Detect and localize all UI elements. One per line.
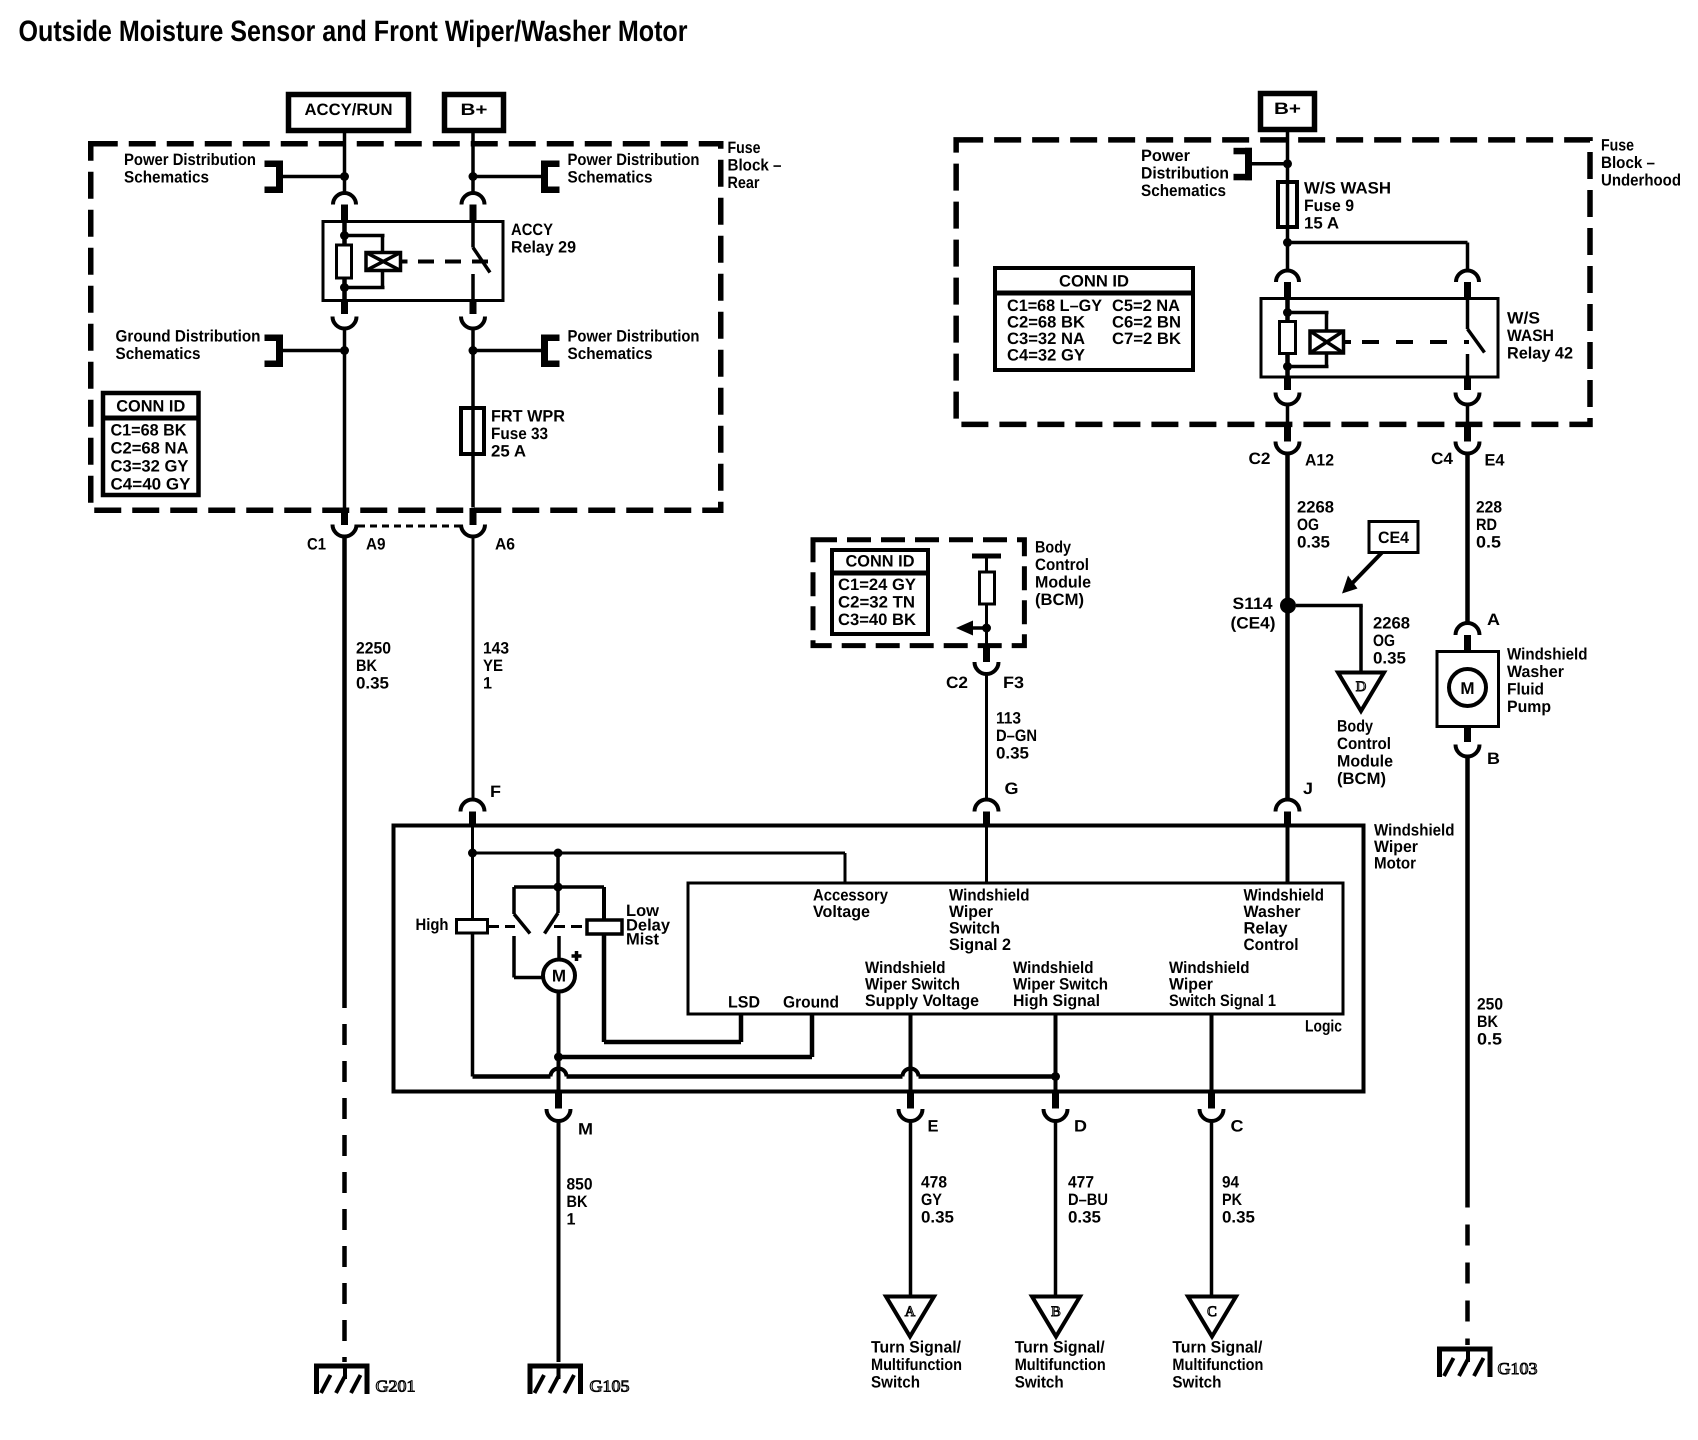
svg-text:Rear: Rear — [728, 174, 760, 192]
svg-text:(BCM): (BCM) — [1337, 770, 1386, 788]
wire: wiper switch signal 1 pin C — [1210, 1014, 1214, 1092]
ground G103 — [1437, 1347, 1538, 1378]
svg-text:250: 250 — [1477, 995, 1503, 1013]
wire branch S114 to BCM triangle — [1296, 606, 1363, 673]
svg-text:478: 478 — [921, 1173, 947, 1191]
wire: low winding to LSD — [604, 934, 741, 1042]
svg-text:Turn Signal/: Turn Signal/ — [1015, 1338, 1105, 1356]
logic pin labels bottom row — [728, 959, 1276, 1012]
svg-text:CE4: CE4 — [1378, 529, 1410, 547]
svg-text:Ground: Ground — [783, 993, 839, 1011]
wire: high speed bus to pin D — [473, 933, 1056, 1077]
svg-text:BK: BK — [356, 657, 377, 675]
wire 113 D-GN 0.35 — [985, 674, 988, 798]
relay ACCY Relay 29 body — [323, 221, 576, 301]
junction node switch feed — [554, 849, 563, 858]
svg-text:0.35: 0.35 — [921, 1208, 954, 1226]
svg-text:0.35: 0.35 — [1068, 1208, 1101, 1226]
svg-text:Wiper Switch: Wiper Switch — [1013, 975, 1108, 993]
svg-text:Schematics: Schematics — [568, 168, 653, 186]
wire 850 BK 1 to G105 — [557, 1122, 561, 1362]
svg-text:C: C — [1231, 1117, 1244, 1135]
connector C2 pin A12 (underhood exit) — [1276, 427, 1300, 454]
svg-text:C3=40 BK: C3=40 BK — [838, 611, 916, 629]
svg-text:Control: Control — [1244, 936, 1299, 954]
power feed box B+ (underhood) — [1261, 94, 1315, 130]
splice S114 (CE4) — [1280, 598, 1296, 614]
wire: J washer relay control into logic — [1286, 826, 1290, 885]
svg-text:C1=24 GY: C1=24 GY — [838, 576, 916, 594]
svg-text:Wiper Switch: Wiper Switch — [865, 975, 960, 993]
svg-text:C3=32 GY: C3=32 GY — [111, 457, 189, 475]
relay 42 coil-side internal wire — [1285, 299, 1290, 323]
label High — [416, 916, 449, 934]
wire 478 GY 0.35 — [909, 1122, 913, 1297]
junction node ground distribution tap — [340, 346, 349, 355]
svg-text:0.5: 0.5 — [1476, 533, 1501, 551]
svg-text:CONN ID: CONN ID — [846, 553, 915, 571]
svg-text:0.35: 0.35 — [1297, 533, 1330, 551]
fuse block - underhood dashed enclosure — [956, 140, 1590, 425]
label body control module (BCM) upper — [1035, 538, 1091, 609]
wire: relay 42 coil out to connector C2 — [1286, 405, 1290, 428]
relay 42 connector (coil pin) — [1276, 271, 1299, 300]
logic module label — [1305, 1017, 1342, 1035]
svg-text:Power Distribution: Power Distribution — [124, 151, 256, 169]
speed selector switch (High/Low) — [514, 887, 604, 934]
switch armature dashed link — [489, 925, 587, 928]
wire: relay 29 coil to ground distribution — [343, 329, 347, 508]
svg-text:C1=68 BK: C1=68 BK — [111, 421, 187, 439]
wire: wiper switch supply voltage pin E — [909, 1014, 913, 1092]
relay 42 armature dashed link — [1362, 340, 1469, 344]
junction node F line — [468, 849, 477, 858]
ground G201 — [314, 1364, 416, 1396]
svg-text:C4: C4 — [1431, 450, 1454, 468]
svg-text:C5=2 NA: C5=2 NA — [1112, 297, 1180, 315]
connector body dashed tie C1 — [358, 525, 460, 528]
label turn signal multifunction switch (A) — [871, 1338, 962, 1391]
svg-text:E: E — [928, 1117, 939, 1135]
connector below BCM (C2/F3) — [975, 648, 999, 674]
svg-text:Distribution: Distribution — [1141, 164, 1229, 182]
svg-text:Turn Signal/: Turn Signal/ — [1172, 1338, 1262, 1356]
wire: motor armature to connector M — [557, 992, 561, 1092]
junction node underhood B+ tap — [1283, 159, 1292, 168]
svg-text:Windshield: Windshield — [1013, 959, 1094, 977]
CONN ID table (BCM) — [832, 550, 928, 634]
svg-text:15 A: 15 A — [1304, 214, 1339, 232]
svg-text:C1=68 L–GY: C1=68 L–GY — [1007, 297, 1102, 315]
svg-text:2268: 2268 — [1373, 614, 1410, 632]
svg-text:F3: F3 — [1003, 674, 1024, 692]
svg-text:C2=68 BK: C2=68 BK — [1007, 313, 1085, 331]
logic module box — [688, 883, 1343, 1014]
connector C1 pin A6 (fuse block rear exit) — [461, 508, 485, 537]
BCM internal pull-up supply bar — [972, 554, 1001, 559]
wire: relay 42 output to connector C4 — [1466, 405, 1470, 428]
connector D below motor — [1044, 1092, 1068, 1122]
svg-text:B+: B+ — [1274, 100, 1301, 118]
svg-text:143: 143 — [483, 639, 509, 657]
wiper motor M — [543, 936, 582, 992]
svg-text:OG: OG — [1373, 632, 1395, 650]
crossover hop at motor line — [551, 1069, 567, 1077]
wire: B+ feed down to relay — [471, 132, 475, 193]
wire: G signal into logic (wiper switch signal 2) — [985, 826, 988, 885]
svg-text:C2=68 NA: C2=68 NA — [111, 439, 189, 457]
wire 250 BK 0.5 (solid run) — [1465, 757, 1470, 1187]
wire: S114 down to connector J — [1285, 606, 1290, 799]
pin label A — [1487, 611, 1500, 629]
connector C1 pin A9 (fuse block rear exit) — [333, 508, 357, 537]
svg-text:228: 228 — [1476, 498, 1502, 516]
wire: relay 29 output to fuse 33 — [471, 329, 475, 409]
svg-text:Block –: Block – — [728, 156, 782, 174]
junction node high bus to pin D — [1051, 1072, 1060, 1081]
svg-text:M: M — [578, 1120, 593, 1138]
junction node motor ground — [554, 1053, 563, 1062]
junction node switch bar — [554, 883, 563, 892]
svg-text:High: High — [416, 916, 449, 934]
svg-text:WASH: WASH — [1507, 327, 1554, 345]
svg-text:2268: 2268 — [1297, 498, 1334, 516]
BCM signal direction arrow — [956, 621, 987, 636]
power feed box ACCY/RUN — [289, 95, 409, 131]
wire: wiper switch high signal pin D — [1054, 1014, 1058, 1092]
arrow from CE4 to splice — [1342, 553, 1382, 594]
svg-text:Module: Module — [1035, 573, 1091, 591]
svg-text:Wiper: Wiper — [949, 903, 994, 921]
svg-text:Fuse 33: Fuse 33 — [491, 425, 548, 443]
fuse W/S WASH Fuse 9 15 A — [1278, 179, 1391, 232]
label turn signal multifunction switch (B) — [1015, 1338, 1106, 1391]
junction node on B+ line — [469, 172, 478, 181]
fuse FRT WPR Fuse 33 25 A — [461, 407, 565, 460]
CONN ID table (fuse block underhood) — [995, 268, 1193, 370]
connector B below pump — [1456, 726, 1480, 757]
junction node on ACCY/RUN line — [340, 172, 349, 181]
relay 42 lower connector (coil side) — [1276, 376, 1300, 405]
svg-text:Windshield: Windshield — [1244, 886, 1325, 904]
svg-text:2250: 2250 — [356, 639, 391, 657]
svg-text:A: A — [905, 1304, 916, 1320]
ground G105 — [528, 1364, 630, 1396]
label Low Delay Mist — [626, 902, 671, 948]
svg-text:0.5: 0.5 — [1477, 1030, 1502, 1048]
svg-text:C: C — [1207, 1304, 1217, 1320]
wire 94 PK 0.35 — [1210, 1122, 1214, 1297]
relay 42 internal node upper — [1283, 308, 1292, 317]
svg-text:Logic: Logic — [1305, 1017, 1342, 1035]
crossover hop at pin E line — [903, 1069, 919, 1077]
wire: switch common feed — [556, 853, 560, 887]
svg-text:A9: A9 — [366, 536, 386, 554]
svg-text:B: B — [1487, 750, 1500, 768]
svg-text:A12: A12 — [1305, 451, 1334, 469]
svg-text:477: 477 — [1068, 1173, 1094, 1191]
connector A into washer pump — [1456, 623, 1480, 653]
relay 42 internal node lower — [1283, 362, 1292, 371]
svg-text:Mist: Mist — [626, 931, 660, 949]
svg-text:Fuse 9: Fuse 9 — [1304, 197, 1354, 215]
svg-text:Power: Power — [1141, 147, 1191, 165]
svg-text:CONN ID: CONN ID — [1059, 272, 1129, 290]
svg-text:Turn Signal/: Turn Signal/ — [871, 1338, 961, 1356]
wire label 2250 BK 0.35 — [356, 639, 391, 692]
pin labels C2 F3 — [946, 674, 1024, 692]
svg-text:YE: YE — [483, 657, 503, 675]
svg-text:ACCY/RUN: ACCY/RUN — [305, 101, 393, 119]
svg-text:C2: C2 — [946, 674, 968, 692]
wire 477 D-BU 0.35 — [1054, 1122, 1058, 1297]
wire: fuse 33 to connector A6 — [471, 454, 475, 508]
svg-text:CONN ID: CONN ID — [116, 398, 185, 416]
svg-text:C4=40 GY: C4=40 GY — [111, 475, 191, 493]
svg-text:Body: Body — [1035, 538, 1072, 556]
svg-text:Switch: Switch — [1172, 1373, 1221, 1391]
BCM internal pull-up resistor — [980, 556, 995, 649]
pin label G — [1005, 780, 1019, 798]
svg-text:G: G — [1005, 780, 1019, 798]
svg-text:F: F — [490, 783, 501, 801]
connector C4 pin E4 (underhood exit) — [1456, 427, 1480, 454]
svg-text:Fuse: Fuse — [728, 139, 761, 157]
svg-text:B+: B+ — [461, 101, 488, 119]
svg-text:0.35: 0.35 — [1373, 649, 1406, 667]
svg-text:LSD: LSD — [728, 993, 760, 1011]
connector G into motor — [975, 800, 999, 828]
svg-text:Underhood: Underhood — [1601, 171, 1681, 189]
svg-text:0.35: 0.35 — [356, 674, 389, 692]
svg-text:J: J — [1303, 780, 1313, 798]
wire 228 RD 0.5 — [1465, 454, 1470, 624]
connector C below motor — [1200, 1092, 1224, 1122]
svg-text:94: 94 — [1222, 1173, 1240, 1191]
svg-text:Wiper: Wiper — [1169, 975, 1214, 993]
svg-text:Windshield: Windshield — [865, 959, 946, 977]
power feed box B+ (rear) — [445, 95, 504, 131]
svg-text:RD: RD — [1476, 516, 1497, 534]
pin labels C2 A12 C4 E4 — [1249, 450, 1506, 469]
svg-text:W/S: W/S — [1507, 309, 1540, 327]
connector M below motor — [547, 1092, 571, 1122]
svg-text:Windshield: Windshield — [1169, 959, 1250, 977]
contact pad High — [457, 920, 488, 934]
wire 2250 BK 0.35 (dashed continuation to G201) — [342, 987, 347, 1362]
svg-text:BK: BK — [567, 1193, 588, 1211]
svg-text:GY: GY — [921, 1191, 942, 1209]
svg-text:Switch: Switch — [1015, 1373, 1064, 1391]
svg-text:W/S WASH: W/S WASH — [1304, 179, 1391, 197]
connector E below motor — [899, 1092, 923, 1122]
wire: branch to relay 42 switch side — [1288, 243, 1468, 271]
svg-text:Power Distribution: Power Distribution — [568, 151, 700, 169]
relay connector (switch pin 30) — [462, 193, 485, 222]
off-page reference: Power Distribution Schematics (top left) — [124, 151, 342, 193]
junction node below fuse 9 — [1283, 238, 1292, 247]
triangle connector A to turn signal switch — [886, 1297, 934, 1337]
fuse block - rear dashed enclosure — [91, 144, 721, 511]
wire 2250 BK 0.35 (solid run) — [342, 537, 347, 988]
svg-text:ACCY: ACCY — [511, 221, 553, 239]
svg-text:Motor: Motor — [1374, 854, 1417, 872]
relay W/S WASH Relay 42 body — [1261, 299, 1573, 378]
relay 29 internal node upper — [340, 231, 349, 240]
svg-text:Switch: Switch — [871, 1373, 920, 1391]
svg-text:Control: Control — [1337, 735, 1391, 753]
svg-text:(CE4): (CE4) — [1231, 614, 1276, 632]
svg-text:Block –: Block – — [1601, 154, 1655, 172]
svg-text:Outside Moisture Sensor and Fr: Outside Moisture Sensor and Front Wiper/… — [19, 15, 688, 48]
svg-text:Relay 29: Relay 29 — [511, 238, 576, 256]
wire 2268 OG 0.35 upper — [1285, 454, 1290, 600]
svg-text:Schematics: Schematics — [568, 345, 653, 363]
svg-text:Washer: Washer — [1507, 663, 1565, 681]
svg-text:Supply Voltage: Supply Voltage — [865, 992, 979, 1010]
svg-text:C7=2 BK: C7=2 BK — [1112, 330, 1181, 348]
svg-text:Pump: Pump — [1507, 698, 1551, 716]
svg-text:G105: G105 — [590, 1377, 630, 1396]
svg-text:Power Distribution: Power Distribution — [568, 327, 700, 345]
wire label 850 BK 1 — [567, 1175, 593, 1228]
relay 42 switch contact — [1468, 299, 1485, 378]
relay 29 coil — [366, 253, 408, 271]
svg-text:High Signal: High Signal — [1013, 992, 1100, 1010]
svg-text:Windshield: Windshield — [1507, 645, 1588, 663]
svg-text:BK: BK — [1477, 1013, 1498, 1031]
svg-text:(BCM): (BCM) — [1035, 591, 1084, 609]
off-page reference: Power Distribution Schematics (bottom right) — [473, 327, 700, 367]
svg-text:FRT WPR: FRT WPR — [491, 407, 565, 425]
svg-text:Switch: Switch — [949, 919, 1000, 937]
connector J into motor — [1276, 800, 1300, 828]
pin label J — [1303, 780, 1313, 798]
pin label F — [490, 783, 501, 801]
svg-text:Multifunction: Multifunction — [1015, 1356, 1106, 1374]
wire: motor ground return — [559, 1014, 813, 1057]
pin label B — [1487, 750, 1500, 768]
svg-text:C1: C1 — [307, 536, 326, 554]
svg-text:D: D — [1074, 1117, 1087, 1135]
svg-text:B: B — [1051, 1304, 1061, 1320]
svg-text:Schematics: Schematics — [116, 345, 201, 363]
svg-text:D: D — [1356, 679, 1366, 695]
svg-text:Relay 42: Relay 42 — [1507, 344, 1573, 362]
resistor (relay 29 suppression) — [337, 245, 352, 278]
svg-text:C2=32 TN: C2=32 TN — [838, 593, 915, 611]
body control module dashed enclosure — [813, 540, 1024, 646]
relay 29 internal node lower — [340, 283, 349, 292]
svg-text:Relay: Relay — [1244, 919, 1289, 937]
junction node power distribution tap — [469, 346, 478, 355]
label turn signal multifunction switch (C) — [1172, 1338, 1263, 1391]
svg-text:113: 113 — [996, 709, 1021, 727]
relay 42 connector (switch pin) — [1456, 271, 1479, 300]
svg-text:Wiper: Wiper — [1374, 838, 1419, 856]
wire: accessory voltage feed inside motor — [473, 826, 846, 920]
relay 42 coil branch wires — [1291, 313, 1329, 367]
svg-text:Body: Body — [1337, 717, 1374, 735]
svg-text:Fluid: Fluid — [1507, 680, 1544, 698]
wire 250 BK 0.5 (dashed continuation) — [1465, 1187, 1470, 1346]
svg-text:850: 850 — [567, 1175, 593, 1193]
svg-text:Module: Module — [1337, 752, 1393, 770]
svg-text:Signal 2: Signal 2 — [949, 936, 1011, 954]
svg-text:M: M — [1460, 679, 1474, 698]
relay 42 coil — [1310, 331, 1351, 353]
CONN ID table (fuse block rear) — [103, 393, 199, 495]
svg-text:S114: S114 — [1233, 595, 1274, 613]
svg-text:Control: Control — [1035, 556, 1089, 574]
svg-text:A: A — [1487, 611, 1500, 629]
svg-text:C2: C2 — [1249, 450, 1271, 468]
svg-text:Ground Distribution: Ground Distribution — [116, 327, 261, 345]
svg-text:Windshield: Windshield — [1374, 821, 1455, 839]
relay 29 coil-side internal wire — [342, 222, 347, 247]
wire: high contact to motor — [514, 936, 544, 978]
off-page reference: Ground Distribution Schematics — [116, 327, 343, 367]
wire: ACCY/RUN feed down to relay — [343, 132, 347, 193]
windshield washer fluid pump — [1437, 652, 1499, 727]
callout box CE4 — [1369, 522, 1418, 553]
BCM internal node — [982, 624, 991, 633]
logic pin labels top row — [813, 886, 1324, 954]
svg-text:Fuse: Fuse — [1601, 136, 1634, 154]
windshield wiper motor enclosure — [394, 821, 1455, 1091]
svg-text:D–GN: D–GN — [996, 727, 1037, 745]
svg-text:C6=2 BN: C6=2 BN — [1112, 313, 1181, 331]
wire 143 YE 1 — [472, 537, 475, 799]
svg-text:G103: G103 — [1498, 1359, 1538, 1378]
relay connector (coil pin 86) — [333, 193, 356, 222]
relay 42 lower connector (output side) — [1456, 376, 1480, 405]
triangle connector B to turn signal switch — [1032, 1297, 1080, 1337]
svg-text:E4: E4 — [1485, 451, 1506, 469]
relay 29 switch contact — [473, 222, 490, 301]
off-page reference: Power Distribution Schematics (underhood) — [1141, 147, 1285, 200]
svg-text:PK: PK — [1222, 1191, 1242, 1209]
svg-text:OG: OG — [1297, 516, 1319, 534]
svg-text:A6: A6 — [495, 536, 515, 554]
wire label 250 BK 0.5 — [1477, 995, 1503, 1048]
svg-text:0.35: 0.35 — [1222, 1208, 1255, 1226]
svg-text:Multifunction: Multifunction — [871, 1356, 962, 1374]
relay 29 armature dashed link — [418, 260, 488, 264]
svg-text:D–BU: D–BU — [1068, 1191, 1108, 1209]
svg-text:1: 1 — [483, 674, 492, 692]
connector F into motor — [461, 800, 485, 828]
wire label 143 YE 1 — [483, 639, 509, 692]
svg-text:G201: G201 — [376, 1377, 416, 1396]
wire label 2268 OG 0.35 branch — [1373, 614, 1410, 667]
triangle connector D to BCM — [1338, 673, 1384, 712]
triangle connector C to turn signal switch — [1188, 1297, 1236, 1337]
resistor (relay 42 suppression) — [1280, 322, 1296, 354]
contact pad Low Delay Mist — [587, 920, 622, 934]
svg-text:Voltage: Voltage — [813, 903, 870, 921]
label windshield washer fluid pump — [1507, 645, 1588, 716]
svg-text:Windshield: Windshield — [949, 886, 1030, 904]
svg-text:Multifunction: Multifunction — [1172, 1356, 1263, 1374]
svg-text:25 A: 25 A — [491, 442, 526, 460]
svg-text:Schematics: Schematics — [124, 168, 209, 186]
svg-text:0.35: 0.35 — [996, 744, 1029, 762]
wire: B+ underhood feed — [1286, 131, 1290, 271]
svg-text:1: 1 — [567, 1210, 576, 1228]
off-page reference: Power Distribution Schematics (top right) — [473, 151, 700, 193]
svg-text:C3=32 NA: C3=32 NA — [1007, 330, 1085, 348]
